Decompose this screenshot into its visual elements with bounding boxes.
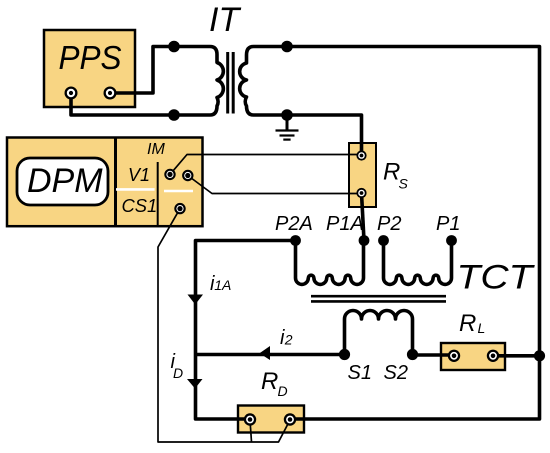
svg-text:R: R bbox=[459, 310, 476, 337]
svg-text:L: L bbox=[478, 320, 486, 336]
svg-text:1A: 1A bbox=[214, 277, 231, 293]
svg-text:IT: IT bbox=[209, 1, 241, 39]
svg-text:CS1: CS1 bbox=[122, 195, 158, 216]
svg-text:P2A: P2A bbox=[275, 213, 313, 235]
svg-text:R: R bbox=[261, 368, 278, 395]
svg-text:V1: V1 bbox=[128, 165, 150, 185]
svg-text:P2: P2 bbox=[377, 213, 401, 235]
svg-text:2: 2 bbox=[284, 332, 293, 348]
svg-text:S: S bbox=[399, 176, 409, 192]
svg-text:TCT: TCT bbox=[457, 259, 536, 297]
svg-text:IM: IM bbox=[147, 141, 165, 158]
svg-text:P1: P1 bbox=[436, 213, 460, 235]
svg-text:PPS: PPS bbox=[59, 39, 122, 76]
svg-text:S1: S1 bbox=[348, 362, 372, 384]
svg-text:S2: S2 bbox=[384, 362, 408, 384]
svg-text:DPM: DPM bbox=[27, 162, 103, 200]
svg-text:D: D bbox=[278, 383, 288, 399]
svg-text:D: D bbox=[173, 365, 183, 381]
svg-text:P1A: P1A bbox=[326, 213, 364, 235]
